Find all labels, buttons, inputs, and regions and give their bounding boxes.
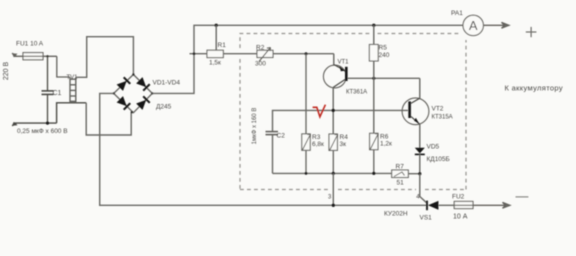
svg-text:VT2: VT2 bbox=[432, 106, 444, 113]
diode VD1 upper-left bbox=[117, 77, 131, 91]
node: C1 bottom junction bbox=[46, 122, 49, 125]
node: drop joins minus rail bbox=[332, 204, 335, 207]
svg-text:1,2к: 1,2к bbox=[380, 141, 392, 148]
diode VD2 upper-right bbox=[136, 77, 150, 91]
resistor R3 trimmer bbox=[302, 134, 310, 150]
svg-text:3: 3 bbox=[328, 195, 332, 201]
node bridge top bbox=[132, 73, 134, 75]
svg-text:PA1: PA1 bbox=[451, 10, 463, 17]
resistor R5 bbox=[373, 25, 375, 44]
wire: R2 to VT1 emitter corner bbox=[273, 53, 334, 55]
transistor VT2 KT315A bbox=[402, 98, 453, 125]
node: R5 bottom junction bbox=[372, 77, 375, 80]
wire: bridge plus to top rail bbox=[152, 25, 463, 93]
svg-text:300: 300 bbox=[255, 61, 266, 68]
svg-text:R3: R3 bbox=[312, 134, 321, 141]
resistor R2 variable bbox=[257, 50, 273, 57]
minus terminal mark bbox=[516, 196, 529, 198]
svg-text:3к: 3к bbox=[340, 141, 347, 148]
transistor VT1 KT361A bbox=[323, 60, 367, 96]
svg-text:VS1: VS1 bbox=[420, 215, 433, 222]
plus terminal mark bbox=[526, 27, 537, 37]
wire: secondary bottom to bridge bottom bbox=[86, 103, 131, 135]
transformer TV1 bbox=[70, 77, 76, 103]
diode bridge VD1-VD4 frame bbox=[114, 75, 153, 113]
svg-text:А: А bbox=[469, 18, 478, 33]
svg-text:FU1 10 A: FU1 10 A bbox=[16, 41, 44, 48]
fuse FU2 bbox=[452, 194, 473, 221]
svg-text:220 В: 220 В bbox=[3, 62, 10, 81]
svg-text:VD1-VD4: VD1-VD4 bbox=[153, 80, 181, 87]
node: R6 bottom bbox=[372, 172, 375, 175]
svg-text:К аккумулятору: К аккумулятору bbox=[505, 84, 563, 93]
node bridge left bbox=[113, 92, 115, 94]
ammeter PA1 bbox=[451, 10, 483, 36]
svg-text:R7: R7 bbox=[396, 164, 405, 171]
node bridge right bbox=[151, 92, 153, 94]
node: R3 tap bbox=[305, 52, 308, 55]
node: R1 feed on top rail bbox=[215, 24, 218, 27]
resistor R4 trimmer bbox=[329, 134, 337, 150]
svg-text:КТ315А: КТ315А bbox=[432, 115, 453, 121]
svg-text:1мкФ х 160 В: 1мкФ х 160 В bbox=[252, 108, 258, 145]
wire: VT1 collector down to mid rail and R4 bbox=[332, 87, 334, 134]
svg-text:КД105Б: КД105Б bbox=[427, 156, 450, 163]
wire: primary top lead bbox=[57, 56, 70, 77]
wire: VT1 base net down to R6 bbox=[373, 78, 375, 133]
wire: bridge minus to bottom rail bbox=[100, 93, 427, 205]
diode VD3 lower-left bbox=[117, 96, 131, 110]
svg-text:R5: R5 bbox=[379, 45, 388, 52]
node: R3 bottom bbox=[305, 172, 308, 175]
wire: VT2 collector up bbox=[419, 78, 421, 98]
resistor R1 bbox=[207, 50, 223, 57]
thyristor VS1 KU202N bbox=[384, 201, 438, 222]
node: R4 bottom / rail drop bbox=[332, 172, 335, 175]
wire: gate lead down to VS1, pin 4 bbox=[420, 174, 427, 203]
resistor R6 trimmer bbox=[370, 133, 378, 149]
node: left vertical and R1 wire bbox=[193, 52, 196, 55]
svg-text:51: 51 bbox=[397, 180, 405, 187]
bottom timing rail bbox=[273, 172, 392, 174]
wire: fuse to C1 node to primary corner bbox=[43, 55, 57, 57]
wire: VS1 to FU2 bbox=[439, 204, 455, 206]
svg-text:VD5: VD5 bbox=[427, 144, 440, 151]
wire: VT2 emitter down to VD5 bbox=[419, 124, 421, 148]
svg-text:C1: C1 bbox=[53, 90, 62, 97]
wire: VT1 emitter drop bbox=[333, 54, 335, 66]
wire: R1 to R2 bbox=[223, 53, 257, 55]
wire: drop to main minus rail, pin 3 bbox=[332, 173, 334, 205]
svg-text:TV1: TV1 bbox=[67, 75, 79, 81]
node: C1 top junction bbox=[46, 55, 48, 57]
wire: VD5 to R7 node bbox=[419, 154, 421, 173]
resistor R7 bbox=[392, 170, 409, 178]
svg-text:R1: R1 bbox=[218, 42, 227, 49]
node: R5 feed on top rail bbox=[372, 24, 375, 27]
svg-text:240: 240 bbox=[379, 52, 390, 59]
node bridge bottom bbox=[131, 111, 133, 113]
node: gate node bbox=[418, 172, 421, 175]
svg-text:Д245: Д245 bbox=[156, 104, 172, 111]
svg-text:R6: R6 bbox=[380, 134, 389, 141]
wire: R4 bottom lead bbox=[332, 150, 334, 173]
svg-text:C2: C2 bbox=[277, 133, 286, 140]
wire: plus output with arrow bbox=[483, 22, 509, 28]
wire: R1 left lead bbox=[190, 53, 208, 55]
wire: minus output with arrow bbox=[473, 202, 510, 208]
dashed control unit box bbox=[240, 34, 466, 190]
svg-text:10 А: 10 А bbox=[453, 214, 468, 221]
svg-text:КУ202Н: КУ202Н bbox=[384, 211, 408, 218]
svg-text:VT1: VT1 bbox=[338, 60, 350, 66]
wire: R7 right lead to gate node bbox=[408, 173, 420, 175]
wire: top rail drop to R1 bbox=[215, 25, 217, 50]
red check mark annotation bbox=[313, 105, 326, 117]
diode VD5 KD105B bbox=[415, 144, 450, 164]
svg-text:FU2: FU2 bbox=[452, 194, 465, 201]
svg-text:R4: R4 bbox=[340, 134, 349, 141]
capacitor C1 bbox=[42, 56, 54, 123]
wire: 220V bottom lead with arrow bbox=[12, 122, 57, 126]
wire: bottom AC up to winding foot bbox=[57, 103, 87, 123]
capacitor C2 bbox=[266, 132, 279, 135]
wire: R3 vertical from tap to box bbox=[305, 54, 307, 134]
svg-text:КТ361А: КТ361А bbox=[346, 89, 367, 95]
fuse FU1 bbox=[16, 41, 44, 60]
svg-text:1,5к: 1,5к bbox=[209, 60, 221, 67]
wire: R6 bottom lead bbox=[373, 150, 375, 174]
diode VD4 lower-right bbox=[136, 96, 150, 110]
wire: 220V top lead with arrow bbox=[12, 53, 23, 57]
svg-text:R2: R2 bbox=[256, 45, 265, 52]
wire: secondary top lead to bridge top bbox=[76, 37, 134, 78]
wire: R3 bottom lead bbox=[305, 150, 307, 173]
wire: VT1 base to VT2 collector bbox=[348, 77, 420, 79]
node: collector joins mid rail bbox=[332, 109, 335, 112]
middle rail: VT1 collector to VT2 base bbox=[273, 110, 409, 131]
svg-text:6,8к: 6,8к bbox=[312, 141, 324, 148]
svg-text:0,25 мкФ х 600 В: 0,25 мкФ х 600 В bbox=[17, 128, 68, 135]
